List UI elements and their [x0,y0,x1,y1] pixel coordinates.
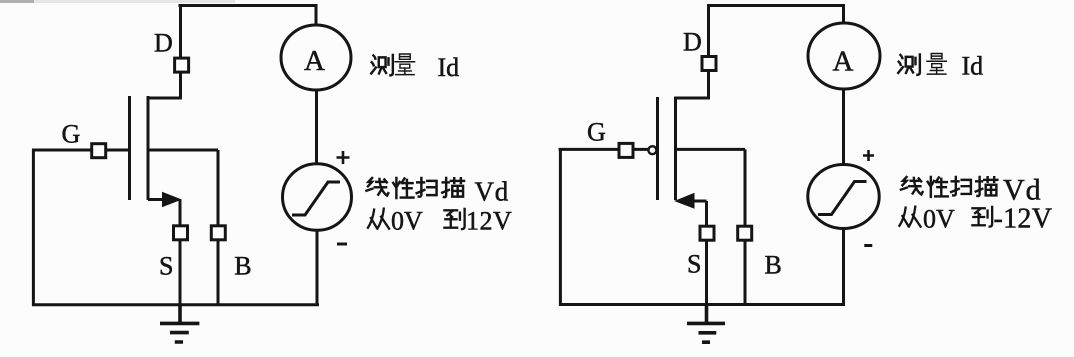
annotation '测量 Id' (left) [371,54,414,75]
terminal pad B (right) [738,226,752,240]
wire: left ammeter top lead [315,4,318,26]
svg-text:G: G [587,118,606,147]
wire: right circuit drain stub to channel [674,97,710,100]
wire: right ammeter to source lead [842,89,845,165]
terminal pad G (right) [619,143,633,157]
wire: right source bottom lead [842,229,845,306]
transistor M1 source arrow [163,193,181,207]
wire: right ammeter top lead [842,4,845,24]
terminal pad G (left) [92,144,106,158]
svg-text:B: B [765,251,782,280]
sweep source V2 ramp symbol [818,182,867,215]
sweep source V1 (left) [283,164,352,231]
wire: left source bottom lead [316,230,319,305]
ammeter A (right) [808,23,880,89]
wire: right circuit top rail [707,4,844,7]
terminal pad D (right) [702,57,716,71]
ground (right) [687,305,725,342]
transistor M2 source arrow [676,194,695,209]
wire: right circuit bottom rail [559,303,845,306]
wire: left circuit bottom rail [32,303,319,306]
label - (right source) [864,244,872,247]
svg-text:S: S [687,250,701,279]
wire: left circuit source vertical [179,200,182,306]
sweep source V1 ramp symbol [292,182,340,215]
wire: right circuit drain vertical [707,4,710,99]
terminal pad S (right) [700,226,714,240]
annotation '从0V 到-12V' (right) [899,207,992,227]
label + (left source) [337,151,350,164]
svg-text:-12V: -12V [994,204,1053,235]
svg-text:D: D [683,28,702,57]
transistor M1 (NMOS) gate plate [128,96,131,200]
transistor M1 channel bar [147,96,150,200]
wire: left circuit drain stub to channel [147,97,182,100]
wire: right circuit bulk wire [676,149,746,304]
wire: left ammeter to source lead [315,90,318,166]
label - (left source) [337,243,347,246]
annotation '线性扫描Vd' (left) [366,178,464,198]
ammeter A (left) [281,25,351,90]
wire: left circuit gate wire [32,149,130,152]
transistor M2 channel bar [674,97,677,200]
wire: right circuit source vertical [705,201,708,305]
sweep source V2 (right) [808,165,879,229]
annotation '线性扫描Vd' (right) [901,177,997,197]
svg-text:0V: 0V [923,205,955,234]
svg-text:S: S [159,252,173,281]
svg-text:G: G [62,120,81,149]
transistor M2 (PMOS) gate plate [656,97,659,200]
svg-text:12V: 12V [466,207,512,236]
svg-text:D: D [154,29,173,58]
annotation '测量 Id' (right) [898,53,946,74]
svg-text:0V: 0V [391,207,423,236]
svg-text:Vd: Vd [475,177,510,207]
wire: right circuit gate wire [559,148,648,151]
svg-text:Id: Id [438,53,460,82]
wire: right circuit left rail [559,148,562,306]
wire: left circuit drain vertical [179,4,182,98]
annotation '从0V 到12V' (left) [368,209,465,229]
wire: left circuit bulk wire [148,150,218,305]
svg-text:A: A [304,45,325,77]
ground (left) [160,305,199,342]
terminal pad B (left) [211,226,225,240]
svg-text:A: A [833,46,854,78]
terminal pad D (left) [175,58,189,72]
svg-text:Vd: Vd [1003,174,1042,207]
transistor M2 gate bubble [648,146,656,154]
svg-text:Id: Id [962,52,984,81]
label + (right source) [863,150,874,161]
wire: left circuit source stub [148,198,166,201]
terminal pad S (left) [174,226,188,240]
wire: right circuit source stub [690,200,707,203]
wire: left circuit left rail [32,149,35,306]
svg-text:B: B [234,252,251,281]
wire: left circuit top rail [179,4,317,7]
